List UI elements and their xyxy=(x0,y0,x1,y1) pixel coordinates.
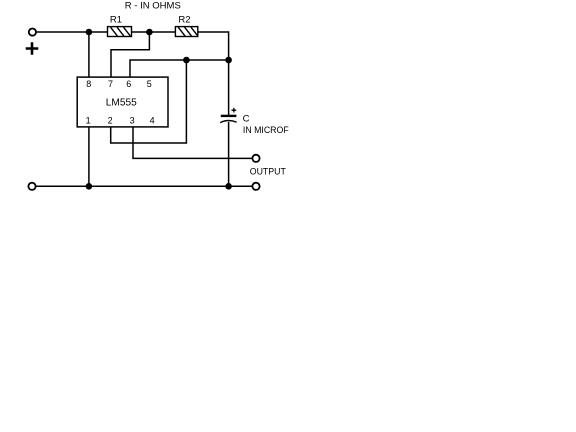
wire top rail left: terminal to R1 xyxy=(36,31,107,33)
svg-text:C: C xyxy=(243,113,250,124)
svg-text:R - IN OHMS: R - IN OHMS xyxy=(125,1,181,12)
wire capacitor bottom lead xyxy=(228,123,230,187)
supply plus symbol xyxy=(26,42,39,55)
wire pin 3 output net: down and right to output terminal xyxy=(133,127,252,158)
node: junction dot pin1/ground rail xyxy=(86,183,93,190)
wire pin 1 drop to bottom rail xyxy=(88,127,90,186)
wire pin 7 net: R1/R2 junction down-left to pin 7 xyxy=(111,32,149,77)
svg-text:OUTPUT: OUTPUT xyxy=(250,167,286,177)
capacitor polarity plus xyxy=(232,108,237,113)
svg-text:4: 4 xyxy=(150,115,155,125)
svg-text:R1: R1 xyxy=(110,14,122,25)
resistor R2 xyxy=(175,27,197,37)
svg-text:IN MICROF: IN MICROF xyxy=(243,125,289,135)
resistor R1 xyxy=(108,27,132,37)
terminal ground left xyxy=(28,183,35,190)
svg-text:2: 2 xyxy=(108,115,113,125)
wire capacitor top lead xyxy=(228,60,230,115)
wire pin 2 net: down, right, up to node on pin6 line xyxy=(111,60,187,143)
node: junction dot pin8/V+ xyxy=(86,29,93,36)
node: junction dot trigger/threshold xyxy=(183,57,190,64)
svg-text:LM555: LM555 xyxy=(106,97,137,108)
svg-text:R2: R2 xyxy=(178,14,190,25)
node: junction dot threshold/cap xyxy=(225,57,232,64)
svg-text:3: 3 xyxy=(130,115,135,125)
op-amp U1: LM555 IC body xyxy=(77,77,168,127)
svg-text:1: 1 xyxy=(86,115,91,125)
node: junction dot cap/ground rail xyxy=(225,183,232,190)
wire bottom rail xyxy=(36,185,253,187)
terminal output xyxy=(252,155,259,162)
wire top rail right: R2 to corner, down to node xyxy=(198,32,229,60)
svg-text:6: 6 xyxy=(126,79,131,89)
capacitor C xyxy=(220,116,236,123)
terminal V+ input xyxy=(29,28,36,35)
node: junction dot R1/R2 xyxy=(146,29,153,36)
terminal ground right xyxy=(252,183,259,190)
wire top rail mid: R1 to R2 xyxy=(132,31,176,33)
wire pin 6 net: pin 6 up and right to cap node xyxy=(130,60,229,77)
svg-text:5: 5 xyxy=(147,79,152,89)
wire pin 8 drop xyxy=(88,32,90,77)
svg-text:8: 8 xyxy=(86,79,91,89)
svg-text:7: 7 xyxy=(108,79,113,89)
